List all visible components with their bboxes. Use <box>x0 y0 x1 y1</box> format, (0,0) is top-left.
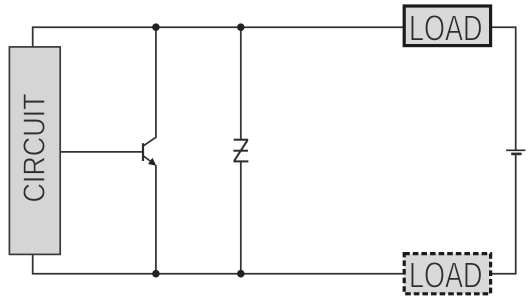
svg-text:CIRCUIT: CIRCUIT <box>18 94 52 203</box>
svg-text:LOAD: LOAD <box>409 255 483 296</box>
svg-text:LOAD: LOAD <box>409 7 483 48</box>
